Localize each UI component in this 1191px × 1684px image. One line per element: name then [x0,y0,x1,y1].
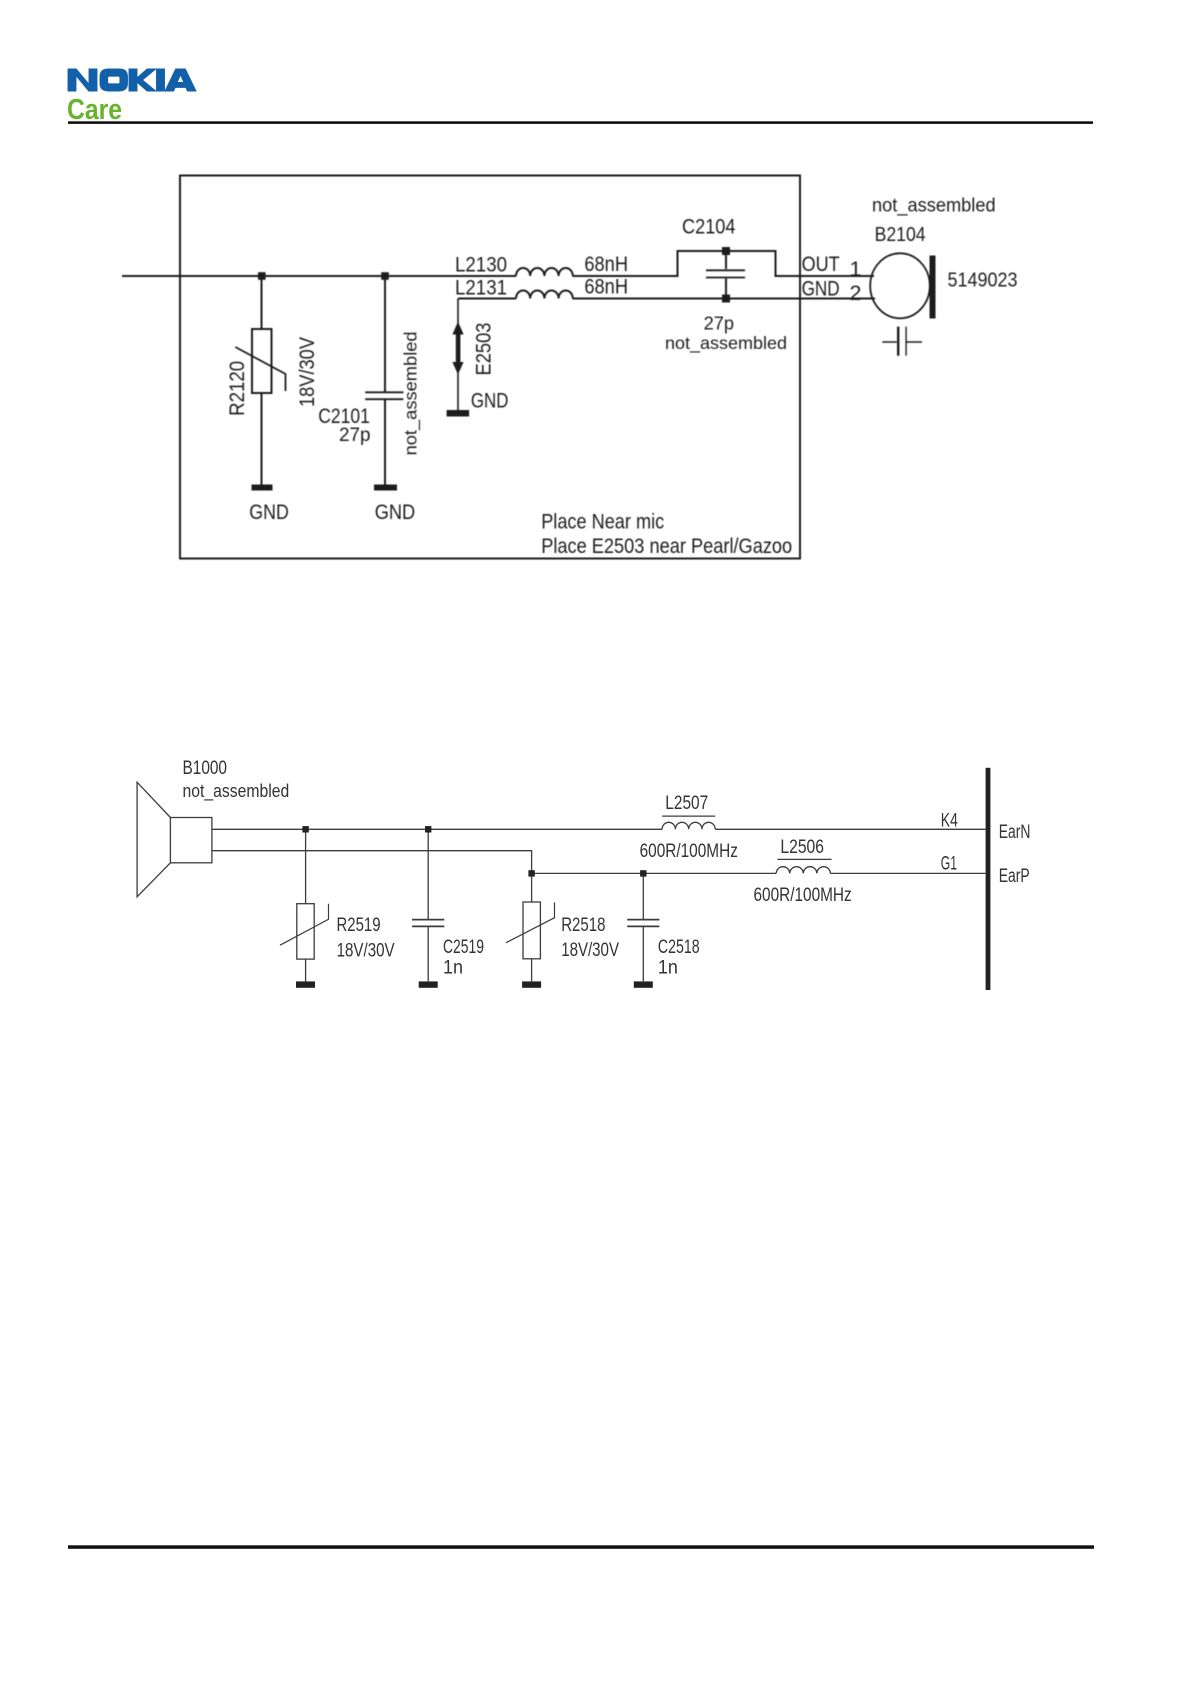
junction node lower wire R2518 [528,870,534,876]
svg-text:GND: GND [802,277,840,301]
svg-text:L2506: L2506 [780,836,824,858]
svg-text:1n: 1n [443,956,463,978]
E2503 arrow head up [452,322,463,335]
capacitor C2104 [725,251,727,298]
inductor L2506 coil [776,867,830,874]
svg-text:18V/30V: 18V/30V [561,939,619,961]
svg-text:B1000: B1000 [183,757,228,779]
speaker B1000 body [170,818,212,863]
svg-text:R2120: R2120 [225,361,249,416]
svg-text:L2130: L2130 [455,253,507,277]
svg-text:not_assembled: not_assembled [183,780,290,802]
capacitor C2518 [642,873,644,981]
label L2506 underline [777,858,831,860]
microphone B2104 circle [870,253,930,318]
ground bar E2503 [447,410,470,417]
svg-text:Place Near mic: Place Near mic [541,510,664,534]
resistor R2519 (VDR) [305,829,307,981]
wire: MIC1P input to L2130 [122,275,516,277]
inductor L2130 coil [516,268,573,276]
wire: L2131 to C2104 GND line [458,298,875,300]
svg-text:68nH: 68nH [584,252,628,276]
svg-text:Care: Care [67,94,122,126]
svg-text:R2518: R2518 [561,914,605,936]
E2503 arrow shaft [456,331,461,367]
nokia logo wordmark [68,69,196,91]
svg-text:B2104: B2104 [875,224,926,246]
connector bar EarN/EarP [986,768,991,990]
svg-text:EarN: EarN [999,821,1031,843]
svg-text:600R/100MHz: 600R/100MHz [640,840,738,862]
ESD protector E2503 [457,299,459,411]
speaker B1000 cone [137,782,170,897]
resistor R2518 (VDR) [531,873,533,981]
svg-text:L2507: L2507 [665,792,708,814]
inductor L2131 coil [516,291,573,299]
junction node on wire1 at R2120 [258,272,266,280]
ground bar C2518 [634,981,653,987]
svg-text:G1: G1 [941,853,957,875]
junction node lower wire C2518 [640,870,646,876]
wire speaker lower to corner [212,851,532,874]
svg-text:OUT: OUT [802,252,840,276]
junction node C2104 bottom [722,295,730,303]
junction node top wire C2519 [425,826,431,832]
resistor R2120 (VDR) [261,276,263,486]
svg-text:R2519: R2519 [337,914,381,936]
wire EarN top [212,828,986,830]
wire EarP lower [532,872,986,874]
svg-text:1n: 1n [658,956,678,978]
junction node on wire1 at C2101 [381,272,389,280]
svg-text:EarP: EarP [999,865,1030,887]
svg-text:18V/30V: 18V/30V [337,939,395,961]
svg-text:L2131: L2131 [455,275,507,299]
capacitor C2519 [427,829,429,981]
svg-text:5149023: 5149023 [948,270,1018,292]
header rule [68,121,1093,124]
svg-text:18V/30V: 18V/30V [295,336,319,407]
svg-text:K4: K4 [941,809,958,831]
svg-text:GND: GND [249,500,288,524]
inductor L2507 coil [662,822,715,829]
svg-text:27p: 27p [339,425,371,446]
junction node C2104 top [722,247,730,255]
capacitor C2101 [384,276,386,486]
microphone sub capacitor [882,341,922,343]
microphone membrane bar [930,256,936,319]
wire: L2130 to C2104 bypass [573,251,875,276]
svg-text:C2104: C2104 [682,215,736,239]
svg-text:600R/100MHz: 600R/100MHz [754,884,852,906]
ground bar C2101 [374,485,397,491]
svg-text:68nH: 68nH [584,275,628,299]
svg-text:GND: GND [375,500,416,524]
svg-text:1: 1 [850,257,862,281]
svg-text:C2518: C2518 [658,936,700,958]
ground bar R2519 [296,981,315,987]
ground bar R2120 [252,485,273,491]
dashed-area box [180,176,800,559]
svg-text:not_assembled: not_assembled [401,331,422,455]
E2503 arrow head down [452,362,463,375]
footer rule [68,1545,1094,1549]
svg-text:not_assembled: not_assembled [665,333,787,354]
svg-text:E2503: E2503 [472,322,496,375]
svg-text:C2519: C2519 [443,936,484,958]
svg-text:Place E2503 near Pearl/Gazoo: Place E2503 near Pearl/Gazoo [541,534,792,558]
label L2507 underline [662,815,715,817]
ground bar R2518 [522,981,541,987]
svg-text:GND: GND [471,389,509,413]
junction node top wire R2519 [302,826,308,832]
svg-text:not_assembled: not_assembled [872,196,996,217]
ground bar C2519 [419,981,438,987]
svg-text:2: 2 [850,281,862,305]
svg-text:27p: 27p [704,313,735,334]
